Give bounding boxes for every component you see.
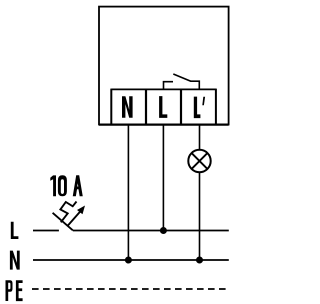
L line left segment — [33, 230, 59, 232]
label 10 A : letter A — [73, 175, 83, 196]
wire L' terminal to lamp — [199, 125, 201, 150]
terminal divider N|L — [145, 89, 147, 125]
terminal strip bottom (thickened box bottom) — [99, 123, 229, 125]
label N terminal — [122, 96, 133, 118]
breaker F1 arrow shaft — [68, 210, 81, 225]
terminal strip left end — [110, 89, 112, 125]
switch S1 right lead — [190, 81, 199, 89]
device box U1 — [99, 7, 229, 125]
L line right segment — [73, 230, 229, 232]
N line — [33, 259, 229, 261]
junction dot on N line at N wire — [125, 257, 132, 264]
label 10 A : digit 1 — [50, 175, 56, 196]
lamp E1 cross — [192, 153, 208, 169]
lamp E1 circle — [188, 150, 210, 172]
terminal divider L|L' — [180, 89, 182, 125]
junction dot on L line — [160, 227, 167, 234]
label PE net : P — [6, 280, 13, 301]
wire lamp to N line — [199, 172, 201, 260]
label N net — [10, 251, 20, 270]
breaker F1 arrow head — [77, 206, 85, 215]
junction dot on N line at lamp wire — [196, 257, 203, 264]
breaker F1 release meander — [60, 202, 76, 223]
wire L terminal to L line — [162, 125, 164, 231]
switch S1 left lead — [164, 82, 174, 90]
terminal strip top edge — [111, 88, 216, 90]
breaker F1 blade — [53, 213, 73, 231]
terminal strip right end — [215, 89, 217, 125]
label PE net : E — [16, 280, 23, 301]
PE line dashed — [32, 288, 229, 290]
wire N terminal to N line — [127, 125, 129, 261]
label L terminal — [159, 96, 167, 118]
label 10 A : digit 0 — [58, 175, 67, 196]
label L' terminal — [194, 97, 201, 118]
label L net — [11, 222, 19, 239]
switch S1 blade — [173, 74, 191, 81]
